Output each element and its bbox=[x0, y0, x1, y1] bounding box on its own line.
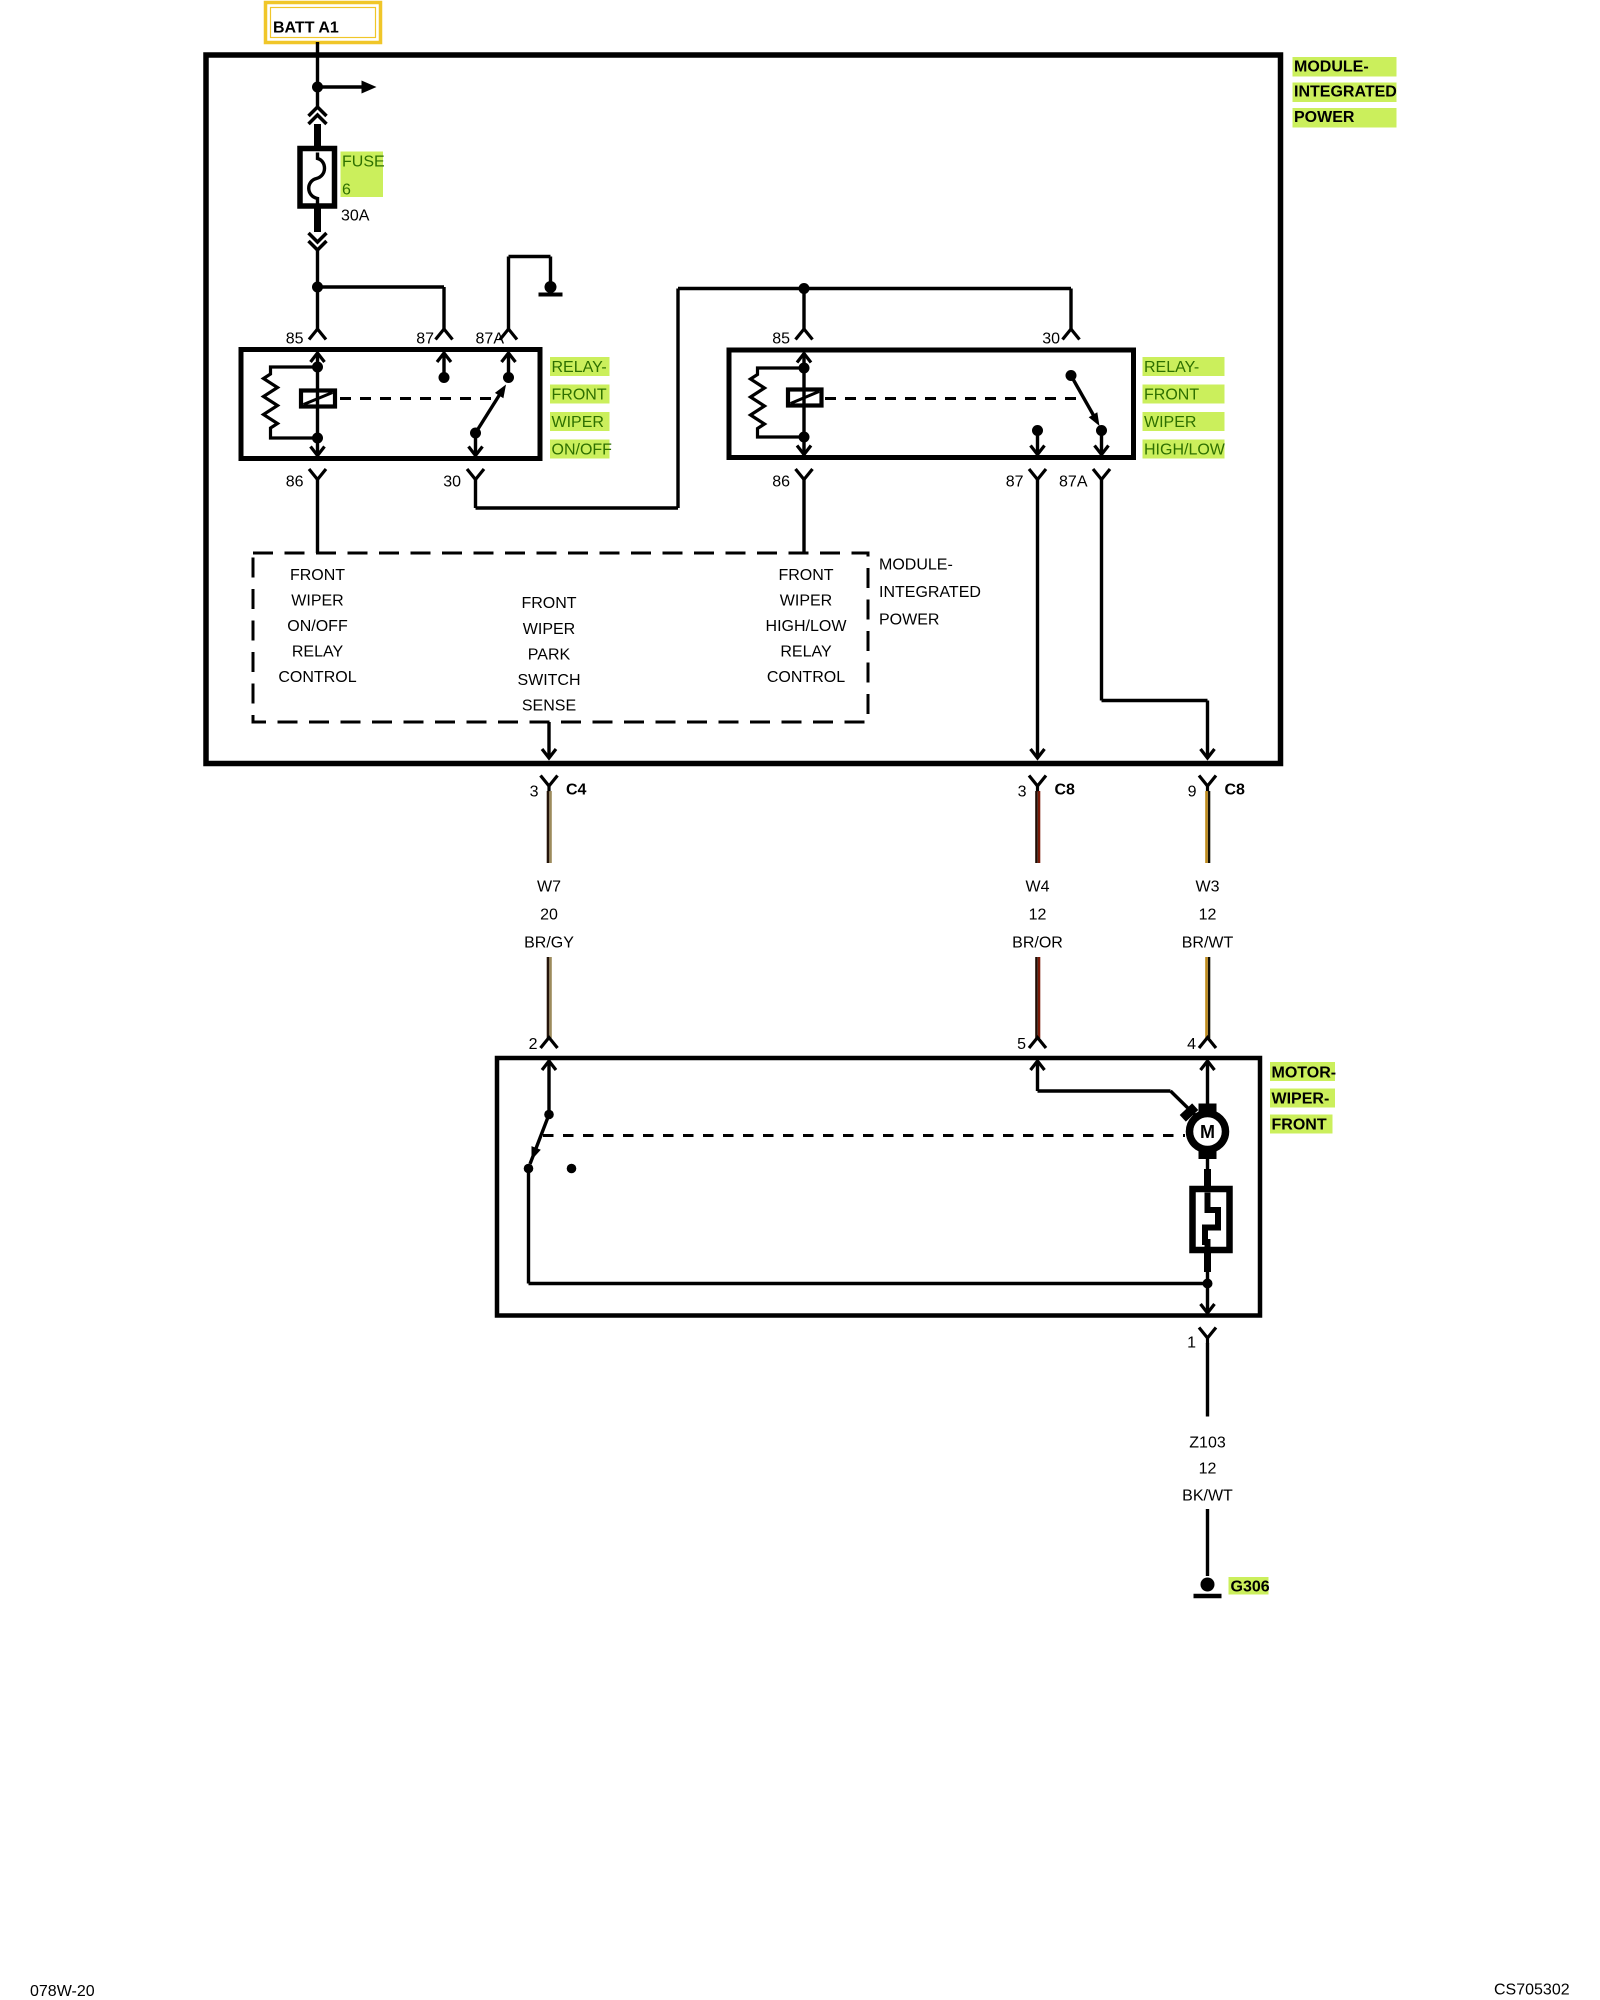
svg-text:30: 30 bbox=[1042, 331, 1060, 348]
svg-text:MODULE-: MODULE- bbox=[1294, 59, 1369, 76]
ground label G306 (highlighted) bbox=[1229, 1577, 1269, 1595]
relay K2 pin 86 connector bbox=[796, 469, 813, 480]
relay K1 pin 87 connector bbox=[436, 329, 453, 340]
motor brush tab bottom bbox=[1199, 1150, 1217, 1160]
motor pin 5 connector bbox=[1029, 1038, 1046, 1049]
relay K2 box outline bbox=[729, 350, 1134, 458]
relay K1 box outline bbox=[241, 350, 540, 459]
motor pin 1 connector bbox=[1199, 1328, 1216, 1339]
svg-text:BATT A1: BATT A1 bbox=[273, 20, 339, 37]
svg-text:RELAY: RELAY bbox=[292, 644, 344, 661]
junction node feed to K2 85 bbox=[799, 283, 810, 294]
junction node below BATT A1 bbox=[312, 82, 323, 93]
fuse F6 body bbox=[300, 149, 335, 207]
svg-text:HIGH/LOW: HIGH/LOW bbox=[766, 618, 848, 635]
svg-text:078W-20: 078W-20 bbox=[30, 1983, 95, 2000]
relay K2 pin 30 connector bbox=[1063, 329, 1080, 340]
svg-text:30A: 30A bbox=[341, 208, 370, 225]
svg-text:RELAY-: RELAY- bbox=[1144, 359, 1199, 376]
svg-text:ON/OFF: ON/OFF bbox=[552, 442, 613, 459]
relay K1 pin 87A connector bbox=[500, 329, 517, 340]
svg-text:BR/OR: BR/OR bbox=[1012, 935, 1063, 952]
connector C8 pin 9 symbol bbox=[1199, 776, 1216, 787]
relay K2 coil top node bbox=[799, 363, 810, 374]
svg-text:12: 12 bbox=[1199, 907, 1217, 924]
park switch common node bbox=[524, 1164, 534, 1174]
svg-text:FRONT: FRONT bbox=[1272, 1117, 1327, 1134]
relay K1 coil box symbol bbox=[301, 391, 335, 407]
relay K1 label (highlighted) bbox=[550, 357, 610, 376]
relay K1 coil bottom node bbox=[312, 433, 323, 444]
ground G306 symbol bbox=[1201, 1578, 1215, 1592]
svg-text:WIPER: WIPER bbox=[552, 414, 604, 431]
svg-text:FRONT: FRONT bbox=[552, 387, 607, 404]
module-integrated power box outline bbox=[206, 55, 1281, 764]
svg-text:FRONT: FRONT bbox=[290, 567, 345, 584]
svg-text:G306: G306 bbox=[1231, 1579, 1270, 1596]
relay K2 pin 30 node bbox=[1066, 370, 1077, 381]
fuse F6 bottom lead bbox=[314, 205, 321, 232]
battery feed callout box BATT A1 bbox=[266, 3, 381, 43]
wire branch to relay K1 pin 87 bbox=[318, 285, 445, 288]
svg-text:WIPER: WIPER bbox=[291, 593, 343, 610]
motor to thermal protector lead bbox=[1206, 1159, 1209, 1169]
svg-text:FRONT: FRONT bbox=[1144, 387, 1199, 404]
svg-text:INTEGRATED: INTEGRATED bbox=[1294, 84, 1397, 101]
svg-text:12: 12 bbox=[1029, 907, 1047, 924]
park switch return wire bbox=[527, 1169, 530, 1284]
relay K1 pin 30 connector bbox=[467, 469, 484, 480]
svg-text:ON/OFF: ON/OFF bbox=[287, 618, 348, 635]
relay K2 coil box symbol bbox=[788, 390, 822, 406]
svg-text:87: 87 bbox=[1006, 474, 1024, 491]
connector C4 pin 3 symbol bbox=[541, 776, 558, 787]
svg-text:INTEGRATED: INTEGRATED bbox=[879, 584, 981, 601]
relay K1 switch common node bbox=[470, 428, 481, 439]
svg-text:POWER: POWER bbox=[1294, 109, 1355, 126]
motor pin 4 lead bbox=[1206, 1061, 1209, 1105]
wire park switch sense to connector C4 bbox=[547, 722, 550, 758]
relay K1 pin 30 lead bbox=[474, 433, 477, 456]
svg-text:85: 85 bbox=[286, 331, 304, 348]
svg-text:C4: C4 bbox=[566, 782, 587, 799]
relay K2 pin 85 connector bbox=[796, 329, 813, 340]
park switch arm bbox=[530, 1115, 549, 1165]
relay K1 coil resistor bbox=[264, 367, 318, 438]
svg-text:CONTROL: CONTROL bbox=[767, 669, 845, 686]
relay K2 pin 87 lead bbox=[1036, 431, 1039, 455]
wiper motor M bbox=[1190, 1114, 1226, 1150]
wire W4 upper segment bbox=[1035, 791, 1038, 863]
motor brush tab upper-left bbox=[1180, 1103, 1199, 1121]
svg-text:2: 2 bbox=[529, 1036, 538, 1053]
svg-text:WIPER-: WIPER- bbox=[1272, 1091, 1330, 1108]
relay K1 pin 87 lead bbox=[442, 353, 445, 378]
svg-text:C8: C8 bbox=[1055, 782, 1076, 799]
relay K2 coil bottom node bbox=[799, 432, 810, 443]
svg-text:3: 3 bbox=[1018, 784, 1027, 801]
relay K2 dashed actuator line bbox=[825, 397, 1081, 400]
svg-text:RELAY-: RELAY- bbox=[552, 359, 607, 376]
thermal protector body bbox=[1193, 1189, 1230, 1250]
fuse label FUSE 6 (highlighted) bbox=[341, 152, 384, 198]
wire branch to relay K1 pin 85 bbox=[316, 287, 319, 329]
svg-text:86: 86 bbox=[772, 474, 790, 491]
motor brush tab top bbox=[1199, 1104, 1217, 1114]
svg-text:M: M bbox=[1200, 1122, 1215, 1142]
motor box dashed line bbox=[543, 1134, 1185, 1137]
wire Z103 lower segment bbox=[1206, 1509, 1209, 1576]
wire junction to fuse connector bbox=[316, 87, 319, 107]
svg-text:PARK: PARK bbox=[528, 647, 571, 664]
svg-text:MODULE-: MODULE- bbox=[879, 557, 953, 574]
svg-text:WIPER: WIPER bbox=[1144, 414, 1196, 431]
svg-text:FUSE: FUSE bbox=[342, 154, 385, 171]
svg-text:87: 87 bbox=[416, 331, 434, 348]
svg-text:W3: W3 bbox=[1196, 879, 1220, 896]
relay K2 pin 87A lead bbox=[1100, 431, 1103, 455]
relay K2 label (highlighted) bbox=[1143, 357, 1225, 376]
motor pin 2 connector bbox=[541, 1038, 558, 1049]
relay K1 pin 85 lead bbox=[316, 353, 319, 457]
motor box label (highlighted) bbox=[1270, 1062, 1335, 1081]
relay K1 switch arm to 87A bbox=[476, 389, 504, 434]
svg-text:4: 4 bbox=[1187, 1036, 1196, 1053]
motor pin 1 lead bbox=[1206, 1284, 1209, 1314]
park switch pin2 node bbox=[544, 1110, 554, 1120]
label MODULE-INTEGRATED POWER (top right, highlighted) bbox=[1293, 57, 1397, 77]
wire down to relay K2 pin 30 bbox=[1069, 289, 1072, 330]
relay K1 pin 85 connector bbox=[309, 329, 326, 340]
wire relay K2 87A to connector C8-9 bbox=[1100, 480, 1103, 701]
svg-text:87A: 87A bbox=[1059, 474, 1088, 491]
svg-text:BR/WT: BR/WT bbox=[1182, 935, 1234, 952]
wire relay K2 87 to connector C8-3 bbox=[1036, 480, 1039, 758]
svg-text:1: 1 bbox=[1187, 1335, 1196, 1352]
in-line connector chevrons above fuse bbox=[309, 107, 327, 116]
wire W7 upper segment bbox=[547, 791, 550, 863]
wire W3 lower segment bbox=[1205, 957, 1208, 1038]
svg-text:RELAY: RELAY bbox=[780, 644, 832, 661]
relay K1 coil top node bbox=[312, 362, 323, 373]
svg-text:SWITCH: SWITCH bbox=[517, 672, 580, 689]
svg-text:Z103: Z103 bbox=[1189, 1435, 1226, 1452]
motor pin 2 lead bbox=[547, 1061, 550, 1115]
branch junction node bbox=[312, 282, 323, 293]
wire Z103 upper segment bbox=[1206, 1343, 1209, 1417]
thermal protector bottom lead bbox=[1204, 1250, 1211, 1272]
svg-text:WIPER: WIPER bbox=[780, 593, 832, 610]
svg-text:30: 30 bbox=[443, 474, 461, 491]
wire relay K1 86 to module block bbox=[316, 480, 319, 554]
svg-text:6: 6 bbox=[342, 182, 351, 199]
wire junction to relay K2 pin 85 bbox=[802, 289, 805, 330]
svg-text:FRONT: FRONT bbox=[778, 567, 833, 584]
wire W7 lower segment bbox=[547, 957, 550, 1038]
relay K2 pin 87A connector bbox=[1093, 469, 1110, 480]
relay K2 pin 85 lead bbox=[802, 353, 805, 455]
motor pin 5 lead bbox=[1036, 1061, 1039, 1092]
relay K2 coil resistor bbox=[751, 368, 805, 437]
connector C8 pin 3 symbol bbox=[1029, 776, 1046, 787]
svg-text:BR/GY: BR/GY bbox=[524, 935, 574, 952]
svg-text:W4: W4 bbox=[1026, 879, 1050, 896]
wire W4 lower segment bbox=[1035, 957, 1038, 1038]
svg-text:12: 12 bbox=[1199, 1461, 1217, 1478]
relay K1 pin 87A lead bbox=[507, 353, 510, 378]
svg-text:WIPER: WIPER bbox=[523, 621, 575, 638]
module logic dashed box bbox=[253, 553, 868, 722]
svg-text:CONTROL: CONTROL bbox=[278, 669, 356, 686]
wire relay K1 30 to relay K2 30 bbox=[474, 480, 477, 509]
termination node at K1 87A stub bbox=[545, 281, 557, 293]
svg-text:BK/WT: BK/WT bbox=[1182, 1488, 1233, 1505]
svg-text:W7: W7 bbox=[537, 879, 561, 896]
in-line connector chevrons below fuse bbox=[309, 233, 327, 242]
wire relay K2 86 to module block bbox=[802, 480, 805, 554]
relay K1 dashed actuator line bbox=[340, 397, 492, 400]
wire relay K1 pin 87A stub up bbox=[507, 257, 510, 330]
wire from BATT A1 to junction bbox=[316, 42, 319, 87]
wire fuse to branch junction bbox=[316, 250, 319, 287]
svg-text:3: 3 bbox=[530, 784, 539, 801]
svg-text:85: 85 bbox=[772, 331, 790, 348]
fuse F6 top lead bbox=[314, 124, 321, 150]
arrow feed to other circuits bbox=[318, 85, 364, 88]
motor return junction node bbox=[1203, 1279, 1213, 1289]
svg-text:5: 5 bbox=[1017, 1036, 1026, 1053]
svg-text:C8: C8 bbox=[1225, 782, 1246, 799]
svg-text:CS705302: CS705302 bbox=[1494, 1982, 1570, 1999]
relay K2 switch arm to 87A bbox=[1071, 376, 1097, 422]
svg-text:HIGH/LOW: HIGH/LOW bbox=[1144, 442, 1226, 459]
wire W3 upper segment bbox=[1205, 791, 1208, 863]
park switch run contact node bbox=[567, 1164, 577, 1174]
svg-text:FRONT: FRONT bbox=[521, 595, 576, 612]
relay K2 pin 87 connector bbox=[1029, 469, 1046, 480]
svg-text:86: 86 bbox=[286, 474, 304, 491]
motor pin 4 connector bbox=[1199, 1038, 1216, 1049]
relay K2 pin 87A node bbox=[1096, 425, 1107, 436]
svg-text:POWER: POWER bbox=[879, 612, 939, 629]
svg-text:9: 9 bbox=[1188, 784, 1197, 801]
motor box outline bbox=[497, 1058, 1260, 1316]
svg-text:20: 20 bbox=[540, 907, 558, 924]
relay K1 pin 86 connector bbox=[309, 469, 326, 480]
svg-text:MOTOR-: MOTOR- bbox=[1272, 1065, 1337, 1082]
relay K2 pin 87 node bbox=[1032, 425, 1043, 436]
svg-text:SENSE: SENSE bbox=[522, 698, 576, 715]
